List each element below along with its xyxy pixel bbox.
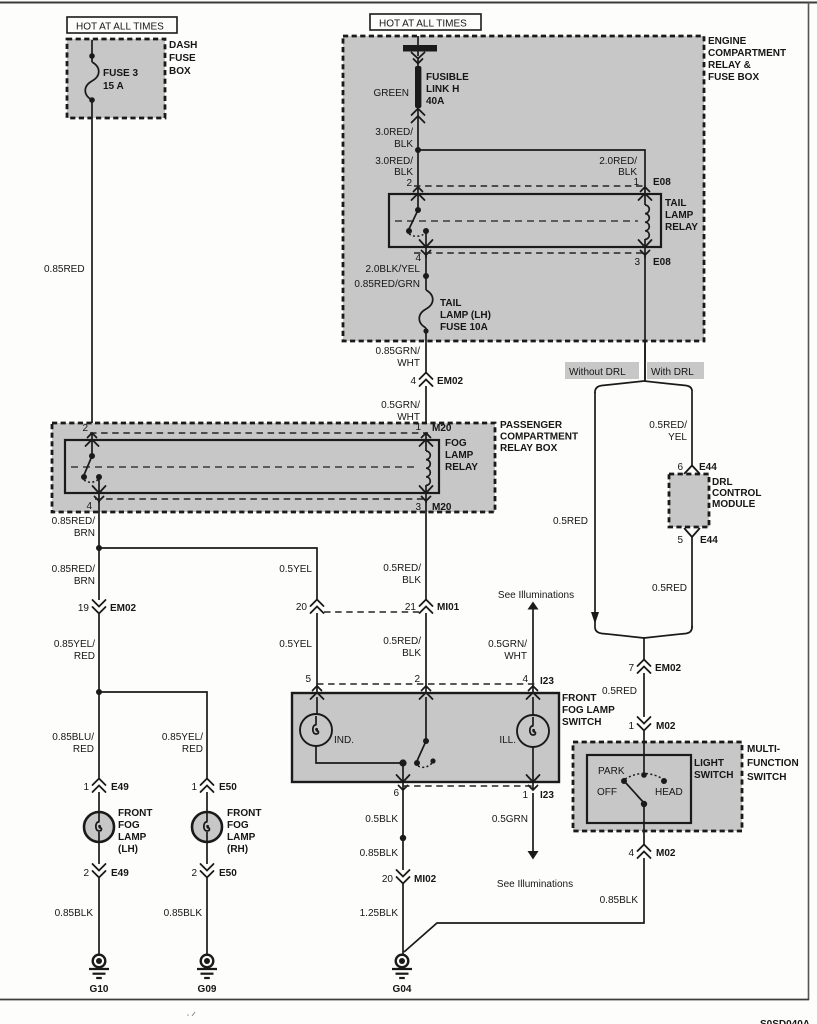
svg-text:0.5GRN: 0.5GRN xyxy=(492,814,528,825)
svg-text:1: 1 xyxy=(191,782,197,793)
svg-text:E49: E49 xyxy=(111,868,129,879)
svg-text:1: 1 xyxy=(415,422,421,433)
svg-text:0.85BLK: 0.85BLK xyxy=(360,848,399,859)
svg-text:E08: E08 xyxy=(653,177,671,188)
pin 6 exit arrow xyxy=(397,775,410,790)
wire pin 3 M20 down xyxy=(425,501,427,600)
wire label 0.5RED/YEL xyxy=(649,420,687,443)
svg-text:TAIL: TAIL xyxy=(440,298,461,309)
wire label 0.85RED/BRN (1) xyxy=(52,516,96,539)
fog relay switch blade xyxy=(84,456,92,475)
ground G04 xyxy=(392,955,412,995)
split brace right xyxy=(644,381,692,392)
svg-text:3: 3 xyxy=(634,257,640,268)
page border bottom xyxy=(0,999,809,1001)
svg-text:M20: M20 xyxy=(432,423,452,434)
connector line I23 bottom xyxy=(403,785,536,787)
wire 3.0RED/BLK xyxy=(417,108,419,186)
svg-text:0.85RED/: 0.85RED/ xyxy=(52,516,96,527)
HOT AT ALL TIMES label box (middle) xyxy=(370,14,481,30)
svg-text:E49: E49 xyxy=(111,782,129,793)
ILL illumination bulb xyxy=(517,715,549,747)
switch pivot node xyxy=(423,738,429,744)
svg-text:0.85BLK: 0.85BLK xyxy=(600,895,639,906)
node left rail split xyxy=(96,545,102,551)
svg-text:(LH): (LH) xyxy=(118,844,138,855)
wire common to pin 6 xyxy=(402,763,404,790)
battery bus bar xyxy=(403,36,437,56)
svg-text:COMPARTMENT: COMPARTMENT xyxy=(708,48,786,59)
svg-text:2: 2 xyxy=(406,178,412,189)
pin 4 exit arrow xyxy=(93,486,106,501)
svg-text:2: 2 xyxy=(414,674,420,685)
tail relay blade tip node xyxy=(406,228,412,234)
tail relay coil xyxy=(639,187,652,258)
svg-text:0.5GRN/: 0.5GRN/ xyxy=(381,400,420,411)
svg-text:SWITCH: SWITCH xyxy=(694,770,733,781)
ground G10 xyxy=(89,955,109,995)
wire merge to EM02 xyxy=(643,637,645,660)
svg-text:0.5YEL: 0.5YEL xyxy=(279,564,312,575)
wire pivot to 4 M02 xyxy=(643,804,645,845)
svg-text:M02: M02 xyxy=(656,721,676,732)
svg-text:E50: E50 xyxy=(219,782,237,793)
wire pin3 E08 down xyxy=(644,253,646,381)
connector 21 MI01 xyxy=(405,600,460,614)
multi-function switch box xyxy=(573,742,742,831)
svg-text:1: 1 xyxy=(633,177,639,188)
node fuse3 top xyxy=(89,53,95,59)
wire label 3.0RED/BLK (1) xyxy=(375,127,413,150)
wire to LH lamp xyxy=(98,792,100,813)
svg-text:FUNCTION: FUNCTION xyxy=(747,758,799,769)
svg-text:5: 5 xyxy=(677,535,683,546)
svg-text:SWITCH: SWITCH xyxy=(747,772,786,783)
connector line E08 top xyxy=(414,185,647,187)
svg-text:0.85BLK: 0.85BLK xyxy=(55,908,94,919)
relay internal dashed line xyxy=(395,220,638,222)
svg-text:G04: G04 xyxy=(393,984,412,995)
svg-text:4: 4 xyxy=(86,501,92,512)
pin 5 entry arrow xyxy=(311,686,324,699)
svg-text:FOG: FOG xyxy=(445,438,467,449)
svg-text:15 A: 15 A xyxy=(103,81,124,92)
wire pin3 E08 to DRL split xyxy=(644,341,646,381)
front fog lamp LH label xyxy=(118,808,152,855)
fog relay contact node xyxy=(96,474,102,480)
connector line MI01 xyxy=(324,611,419,613)
connector 2 E49 xyxy=(83,864,129,879)
svg-text:IND.: IND. xyxy=(334,735,354,746)
IND indicator bulb xyxy=(300,714,332,746)
connector 4 EM02 xyxy=(410,373,463,388)
svg-text:CONTROL: CONTROL xyxy=(712,488,761,499)
svg-text:4: 4 xyxy=(522,674,528,685)
node bus split xyxy=(415,147,421,153)
wire 0.85RED left rail xyxy=(91,100,93,434)
connector line M20 top xyxy=(90,432,428,434)
svg-text:COMPARTMENT: COMPARTMENT xyxy=(500,432,578,443)
pin 1 I23 label xyxy=(522,790,554,801)
wire contact to pin 4 xyxy=(98,477,100,503)
svg-text:RELAY: RELAY xyxy=(665,222,698,233)
connector 20 MI01 xyxy=(296,600,324,614)
wire branch to RH lamp xyxy=(99,692,207,779)
svg-text:EM02: EM02 xyxy=(437,376,464,387)
svg-text:RED: RED xyxy=(182,744,203,755)
ground G09 xyxy=(197,955,217,995)
ILL bulb wire top xyxy=(532,697,534,716)
merge brace left xyxy=(595,626,644,638)
connector line I23 top xyxy=(317,683,536,685)
pin 2 entry arrow xyxy=(420,686,433,699)
svg-text:3.0RED/: 3.0RED/ xyxy=(375,156,413,167)
wire contact to pin 4 xyxy=(425,231,427,258)
switch blade xyxy=(417,741,426,761)
front fog lamp LH xyxy=(84,812,114,842)
svg-text:See Illuminations: See Illuminations xyxy=(498,590,574,601)
tail relay contact node xyxy=(423,228,429,234)
svg-text:FUSE 3: FUSE 3 xyxy=(103,68,138,79)
svg-text:WHT: WHT xyxy=(504,651,527,662)
pin 3 E08 label xyxy=(634,257,671,268)
wire EM02 to M20 xyxy=(425,386,427,440)
tail relay throw arc xyxy=(409,233,426,236)
svg-text:4: 4 xyxy=(415,253,421,264)
page border top xyxy=(0,2,817,4)
fuse F3 element xyxy=(85,62,99,100)
connector 2 E50 xyxy=(191,864,237,879)
dash fuse box xyxy=(67,39,165,118)
svg-text:2: 2 xyxy=(82,423,88,434)
svg-text:2: 2 xyxy=(83,868,89,879)
tail relay switch pivot xyxy=(415,207,421,213)
svg-text:BRN: BRN xyxy=(74,576,95,587)
split brace left xyxy=(595,381,644,393)
svg-text:ENGINE: ENGINE xyxy=(708,36,747,47)
svg-text:2.0RED/: 2.0RED/ xyxy=(599,156,637,167)
See Illuminations (top) xyxy=(498,590,574,694)
wire label 3.0RED/BLK (2) xyxy=(375,156,413,178)
svg-text:7: 7 xyxy=(628,663,634,674)
svg-text:E50: E50 xyxy=(219,868,237,879)
pin 4 exit arrow xyxy=(420,240,433,255)
wire label 0.85YEL/RED xyxy=(54,639,95,662)
pin 3 M20 label xyxy=(415,502,451,513)
svg-text:6: 6 xyxy=(677,462,683,473)
svg-text:0.5RED: 0.5RED xyxy=(553,516,588,527)
fog relay internal dashed line xyxy=(71,466,416,468)
svg-text:HOT AT ALL TIMES: HOT AT ALL TIMES xyxy=(379,19,467,30)
svg-text:S0SD040A: S0SD040A xyxy=(760,1019,810,1024)
wire pin 6 down xyxy=(402,788,404,870)
wire to right branch xyxy=(418,150,645,187)
wire With DRL branch xyxy=(691,392,693,466)
svg-text:G09: G09 xyxy=(198,984,217,995)
svg-text:SWITCH: SWITCH xyxy=(562,717,601,728)
svg-text:FOG LAMP: FOG LAMP xyxy=(562,705,615,716)
switch pin2 wire xyxy=(425,697,427,741)
svg-text:EM02: EM02 xyxy=(110,603,137,614)
svg-text:DASH: DASH xyxy=(169,40,197,51)
svg-text:RED: RED xyxy=(74,651,95,662)
passenger compartment relay box xyxy=(52,423,495,512)
svg-text:0.5RED/: 0.5RED/ xyxy=(649,420,687,431)
tail lamp fuse label xyxy=(440,298,491,333)
light switch inner box xyxy=(587,755,691,823)
wire 0.5RED/BLK down xyxy=(425,613,427,694)
wire label 0.5GRN/WHT xyxy=(381,400,420,423)
svg-text:LINK H: LINK H xyxy=(426,84,459,95)
DRL control module xyxy=(669,474,709,527)
svg-text:2: 2 xyxy=(191,868,197,879)
svg-text:RELAY: RELAY xyxy=(445,462,478,473)
svg-text:LAMP: LAMP xyxy=(665,210,694,221)
connector line M20 bottom xyxy=(95,498,428,500)
wire below 19 EM02 xyxy=(98,614,100,692)
svg-text:TAIL: TAIL xyxy=(665,198,686,209)
wire below DRL module xyxy=(691,536,693,628)
svg-text:FRONT: FRONT xyxy=(118,808,152,819)
svg-text:FUSE: FUSE xyxy=(169,53,196,64)
wire 1.25BLK to ground xyxy=(402,884,404,954)
svg-text:DRL: DRL xyxy=(712,477,733,488)
switch throw arc xyxy=(418,762,433,767)
svg-text:M20: M20 xyxy=(432,502,452,513)
svg-text:RELAY BOX: RELAY BOX xyxy=(500,443,558,454)
svg-text:Without DRL: Without DRL xyxy=(569,367,626,378)
svg-text:2.0BLK/YEL: 2.0BLK/YEL xyxy=(366,264,421,275)
svg-text:MI02: MI02 xyxy=(414,874,437,885)
svg-text:EM02: EM02 xyxy=(655,663,682,674)
svg-text:1: 1 xyxy=(628,721,634,732)
svg-text:E44: E44 xyxy=(699,462,717,473)
tail lamp fuse element xyxy=(419,290,433,328)
pin 4 entry arrow xyxy=(527,686,540,699)
svg-text:0.5RED/: 0.5RED/ xyxy=(383,636,421,647)
svg-text:I23: I23 xyxy=(540,790,554,801)
connector 5 E44 xyxy=(677,529,718,547)
svg-text:YEL: YEL xyxy=(668,432,687,443)
wire to RH lamp xyxy=(206,792,208,813)
fog relay label xyxy=(445,438,478,473)
svg-text:FUSIBLE: FUSIBLE xyxy=(426,72,469,83)
pin 1 E08 label xyxy=(633,177,671,188)
svg-text:FOG: FOG xyxy=(227,820,249,831)
connector line E08 bottom xyxy=(414,252,647,254)
wire Without DRL branch xyxy=(594,392,596,626)
wire 0.5YEL down xyxy=(316,613,318,694)
node fuse3 bottom xyxy=(89,97,95,103)
svg-text:1: 1 xyxy=(522,790,528,801)
fog relay coil xyxy=(420,433,433,503)
wire 0.85BLK LH xyxy=(98,878,100,954)
svg-text:BOX: BOX xyxy=(169,66,191,77)
wire to 0.5YEL rail xyxy=(99,548,317,600)
node 0.85BLK xyxy=(400,835,406,841)
switch throw node xyxy=(430,758,435,763)
connector chevrons below link xyxy=(412,109,425,123)
svg-text:With DRL: With DRL xyxy=(651,367,694,378)
svg-text:0.5YEL: 0.5YEL xyxy=(279,639,312,650)
svg-text:MULTI-: MULTI- xyxy=(747,744,780,755)
passenger box label xyxy=(500,420,578,454)
svg-text:0.85GRN/: 0.85GRN/ xyxy=(376,346,421,357)
svg-text:1: 1 xyxy=(83,782,89,793)
tail relay switch wire xyxy=(417,187,419,210)
svg-text:0.5RED/: 0.5RED/ xyxy=(383,563,421,574)
svg-text:0.85RED/GRN: 0.85RED/GRN xyxy=(354,279,420,290)
fog lamp relay inner box xyxy=(65,440,439,493)
svg-text:MODULE: MODULE xyxy=(712,499,756,510)
svg-text:5: 5 xyxy=(305,674,311,685)
connector 7 EM02 xyxy=(628,660,681,675)
wire pin 1 I23 down xyxy=(532,793,534,852)
wire label 0.85BLU/RED xyxy=(52,732,94,755)
svg-text:LAMP: LAMP xyxy=(118,832,147,843)
fusible link H element xyxy=(415,58,421,108)
svg-text:FRONT: FRONT xyxy=(227,808,261,819)
IND lamp wire top xyxy=(316,697,318,715)
pin 4 I23 label xyxy=(522,674,554,687)
svg-text:0.85RED: 0.85RED xyxy=(44,264,85,275)
svg-text:HOT AT ALL TIMES: HOT AT ALL TIMES xyxy=(76,22,164,33)
svg-text:LIGHT: LIGHT xyxy=(694,758,724,769)
IND return wire xyxy=(316,746,403,763)
wire label 0.5RED/BLK (1) xyxy=(383,563,421,586)
With DRL tag xyxy=(647,362,704,379)
svg-text:BLK: BLK xyxy=(402,575,421,586)
front fog lamp RH label xyxy=(227,808,261,855)
connector 19 EM02 xyxy=(78,600,137,614)
svg-text:PARK: PARK xyxy=(598,766,625,777)
fusible link label xyxy=(426,72,469,107)
pin 2 entry arrow xyxy=(412,187,425,200)
svg-text:0.5BLK: 0.5BLK xyxy=(365,814,398,825)
connector 1 M02 xyxy=(628,717,675,732)
svg-text:E08: E08 xyxy=(653,257,671,268)
connector 1 E50 xyxy=(191,779,237,794)
svg-text:BLK: BLK xyxy=(394,167,413,178)
page border right xyxy=(808,2,810,1000)
light switch input node xyxy=(641,772,647,778)
light switch pivot node xyxy=(641,801,647,807)
connector 1 E49 xyxy=(83,779,129,794)
connector 4 M02 xyxy=(628,845,675,860)
svg-text:20: 20 xyxy=(382,874,394,885)
svg-text:4: 4 xyxy=(410,376,416,387)
svg-text:LAMP: LAMP xyxy=(227,832,256,843)
svg-text:M02: M02 xyxy=(656,848,676,859)
wire RH lamp down xyxy=(206,841,208,864)
connector 6 E44 xyxy=(677,462,717,474)
node lamp branch split xyxy=(96,689,102,695)
svg-text:E44: E44 xyxy=(700,535,718,546)
svg-text:3.0RED/: 3.0RED/ xyxy=(375,127,413,138)
svg-text:6: 6 xyxy=(393,788,399,799)
HEAD position node xyxy=(661,778,667,784)
See Illuminations (bottom) arrow xyxy=(497,851,573,890)
svg-text:MI01: MI01 xyxy=(437,602,460,613)
light switch position arc xyxy=(625,774,663,780)
wire label 2.0RED/BLK xyxy=(599,156,637,178)
svg-text:LAMP: LAMP xyxy=(445,450,474,461)
svg-text:0.5RED: 0.5RED xyxy=(602,686,637,697)
svg-text:0.85BLU/: 0.85BLU/ xyxy=(52,732,94,743)
svg-text:0.85RED/: 0.85RED/ xyxy=(52,564,96,575)
pin 2 entry arrow xyxy=(86,433,99,446)
svg-text:LAMP (LH): LAMP (LH) xyxy=(440,310,491,321)
front fog lamp RH xyxy=(192,812,222,842)
svg-text:See Illuminations: See Illuminations xyxy=(497,879,573,890)
wire label 0.85RED/BRN (2) xyxy=(52,564,96,587)
connector 20 MI02 xyxy=(382,870,437,885)
front fog lamp switch label xyxy=(562,693,615,728)
wire label 0.5GRN/WHT xyxy=(488,639,527,662)
OFF position node xyxy=(621,778,627,784)
wire 0.85BLK RH xyxy=(206,878,208,954)
svg-text:PASSENGER: PASSENGER xyxy=(500,420,563,431)
fuse 3 value label xyxy=(103,68,138,92)
blade tip node xyxy=(414,760,420,766)
dash fuse box label xyxy=(169,40,197,77)
tail relay switch blade xyxy=(409,210,418,229)
svg-text:0.5GRN/: 0.5GRN/ xyxy=(488,639,527,650)
fog relay throw arc xyxy=(84,479,99,482)
svg-text:4: 4 xyxy=(628,848,634,859)
svg-text:G10: G10 xyxy=(90,984,109,995)
wire label 0.5RED/BLK (2) xyxy=(383,636,421,659)
svg-text:I23: I23 xyxy=(540,676,554,687)
wire pin4 down left rail xyxy=(98,501,100,600)
fog relay switch pivot xyxy=(89,453,95,459)
svg-text:0.5RED: 0.5RED xyxy=(652,583,687,594)
Without DRL flow arrow xyxy=(591,612,599,624)
engine compartment relay & fuse box xyxy=(343,36,704,341)
svg-text:FUSE BOX: FUSE BOX xyxy=(708,72,759,83)
light switch label xyxy=(694,758,733,781)
fog relay blade tip node xyxy=(81,474,87,480)
svg-text:BRN: BRN xyxy=(74,528,95,539)
ILL wire to pin 1 xyxy=(532,747,534,790)
wire fuse to EM02 xyxy=(425,328,427,374)
wire from bus to fuse 3 xyxy=(91,40,93,62)
svg-text:20: 20 xyxy=(296,602,308,613)
Without DRL tag xyxy=(565,362,639,379)
svg-text:FRONT: FRONT xyxy=(562,693,596,704)
svg-text:BLK: BLK xyxy=(394,139,413,150)
svg-text:3: 3 xyxy=(415,502,421,513)
DRL control module label xyxy=(712,477,761,510)
pin 1 exit arrow xyxy=(527,775,540,790)
front fog lamp switch box xyxy=(292,693,559,782)
svg-text:RELAY &: RELAY & xyxy=(708,60,751,71)
multi-function switch label xyxy=(747,744,799,783)
svg-text:1.25BLK: 1.25BLK xyxy=(360,908,399,919)
svg-text:40A: 40A xyxy=(426,96,444,107)
node fuse bottom xyxy=(423,328,428,333)
wire 4 M02 to ground run xyxy=(404,858,644,952)
wire 1 M02 into light switch xyxy=(643,731,645,775)
svg-text:HEAD: HEAD xyxy=(655,787,683,798)
fog relay switch wire xyxy=(91,434,93,456)
svg-text:RED: RED xyxy=(73,744,94,755)
svg-text:WHT: WHT xyxy=(397,358,420,369)
common node xyxy=(399,759,406,766)
svg-text:0.85BLK: 0.85BLK xyxy=(164,908,203,919)
svg-text:(RH): (RH) xyxy=(227,844,248,855)
svg-text:FUSE 10A: FUSE 10A xyxy=(440,322,488,333)
